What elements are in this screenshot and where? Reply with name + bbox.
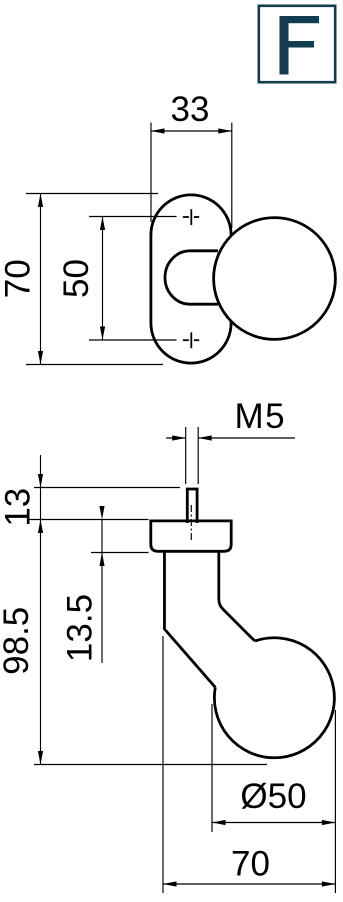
dimension 70 (side) line	[163, 883, 335, 885]
dimension 70 extension line bottom	[26, 364, 163, 366]
dimension 33 line	[151, 130, 232, 132]
threaded stud M5 (side view)	[187, 489, 197, 523]
dimension M5 arrow right	[198, 435, 212, 440]
knob ball (side view) arc	[214, 638, 334, 758]
dimension diameter 50 extension line left	[211, 704, 213, 832]
dimension 70 extension line top	[26, 193, 158, 195]
dimension d50 arrow left	[212, 820, 226, 825]
dimension 33 arrow left	[151, 128, 165, 133]
dimension 50 arrow top	[100, 217, 105, 231]
dimension M5 right leader	[198, 437, 295, 439]
dimension M5 arrow left	[172, 435, 186, 440]
dimension 70 (side) arrow right	[322, 881, 336, 886]
screw hole crosshair top	[183, 209, 199, 225]
rosette outline (top view stadium)	[151, 195, 231, 363]
logo frame F	[259, 6, 335, 82]
shared extension line right (d50 and 70)	[334, 710, 336, 893]
dimension 13 arrow bottom / 98.5 arrow top (pointing up)	[38, 520, 43, 534]
screw hole crosshair bottom	[183, 332, 199, 348]
dimension 50 line	[102, 217, 104, 341]
extension line flange top	[28, 519, 149, 521]
dimension 70 arrow bottom	[38, 351, 43, 365]
svg-text:70: 70	[0, 259, 38, 298]
dimension 13.5 arrow bottom (outside, pointing up)	[99, 553, 104, 567]
dimension 98.5 arrow bottom (pointing down)	[38, 751, 43, 765]
dimension 13.5 line	[101, 520, 103, 664]
svg-text:70: 70	[231, 845, 270, 884]
extension line stud top	[34, 487, 180, 489]
svg-text:33: 33	[171, 90, 210, 129]
dimension 33 arrow right	[218, 128, 232, 133]
svg-text:M5: M5	[234, 397, 286, 436]
svg-text:50: 50	[57, 259, 96, 298]
dimension M5 left leader	[166, 437, 186, 439]
dimension 70 (side) extension line left	[162, 636, 164, 893]
dimension 50 arrow bottom	[100, 327, 105, 341]
dimension 13.5 arrow top (outside, pointing down)	[99, 506, 104, 520]
dimension M5 extension line right	[197, 427, 199, 484]
dimension 33 extension line right	[231, 123, 233, 229]
dimension 50 extension line top	[89, 216, 177, 218]
dimension 13 arrow top (outside, pointing down)	[38, 474, 43, 488]
dimension 33 extension line left	[150, 123, 152, 223]
extension line ball bottom	[34, 764, 267, 766]
knob neck right edge (side view)	[219, 551, 255, 641]
dimension d50 line	[212, 822, 335, 824]
knob ball (top view)	[214, 218, 336, 340]
svg-text:13: 13	[0, 488, 38, 527]
dimension 13 / 98.5 line	[40, 455, 42, 765]
stud centerline	[190, 505, 192, 542]
knob neck (top view)	[165, 251, 218, 304]
dimension d50 arrow right	[322, 820, 336, 825]
knob neck left edge (side view)	[164, 551, 215, 687]
svg-text:Ø50: Ø50	[240, 777, 306, 816]
dimension 70 line	[40, 194, 42, 365]
svg-text:98.5: 98.5	[0, 607, 36, 675]
dimension 70 (side) arrow left	[163, 881, 177, 886]
rosette flange (side view)	[151, 521, 231, 551]
svg-text:13.5: 13.5	[61, 594, 100, 662]
dimension 50 extension line bottom	[89, 339, 177, 341]
extension line flange bottom	[91, 552, 149, 554]
dimension 70 arrow top	[38, 194, 43, 208]
dimension M5 extension line left	[185, 427, 187, 484]
